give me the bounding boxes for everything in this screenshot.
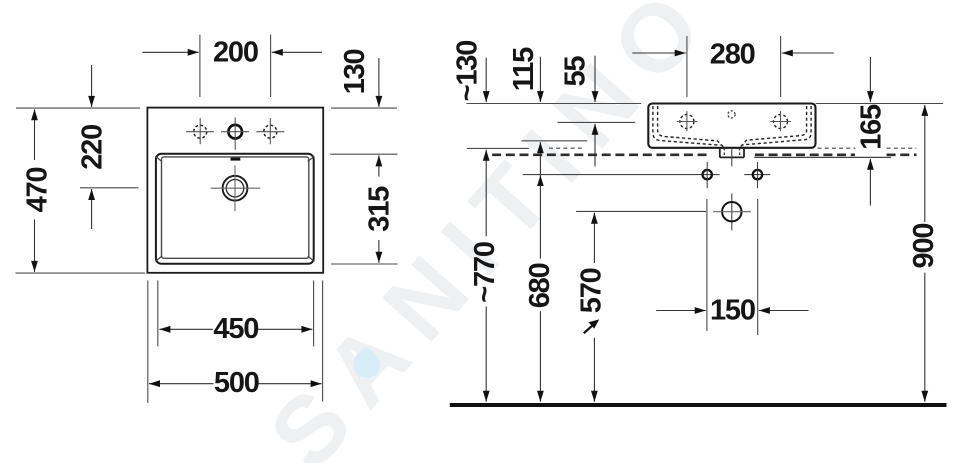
- dim 450: [159, 328, 212, 330]
- dim 115: [539, 57, 541, 102]
- dim 470: [34, 109, 36, 160]
- dim ~130: [485, 58, 487, 102]
- faucet hole middle: [228, 125, 242, 139]
- drain outlet below basin: [719, 148, 721, 158]
- thin dashed hidden line: [549, 147, 584, 149]
- solid line right (counter edge): [754, 156, 891, 158]
- fixing holes level line: [523, 174, 720, 176]
- dim 150: [706, 199, 708, 331]
- svg-text:315: 315: [364, 186, 396, 232]
- svg-text:220: 220: [77, 125, 109, 170]
- thick dashed mounting level line: [492, 154, 709, 157]
- washbasin outer rectangle (top view): [147, 108, 323, 273]
- faucet hole right (dashed): [264, 125, 277, 138]
- fixing hole right: [753, 170, 762, 179]
- fixing hole left: [703, 170, 712, 179]
- watermark blue drop: [353, 347, 380, 378]
- dim 280: [686, 36, 688, 97]
- svg-text:~770: ~770: [469, 242, 501, 303]
- svg-text:115: 115: [508, 47, 540, 91]
- svg-text:~130: ~130: [452, 41, 484, 102]
- slope arrow (570 leader): [584, 325, 593, 333]
- dim 500: [149, 383, 214, 385]
- svg-text:165: 165: [856, 104, 888, 150]
- dim 680: [539, 311, 541, 402]
- overflow slot: [231, 158, 241, 161]
- svg-text:470: 470: [22, 168, 54, 213]
- drain trap level line (570): [576, 210, 706, 212]
- drain (top view): [223, 176, 248, 201]
- ref line 115 level: [521, 140, 587, 142]
- svg-text:900: 900: [908, 224, 940, 269]
- svg-text:280: 280: [710, 38, 755, 70]
- faucet hole left (dashed): [194, 125, 207, 138]
- svg-text:200: 200: [213, 37, 258, 69]
- dim 165: [869, 57, 871, 102]
- faucet hole right (front): [774, 115, 788, 129]
- svg-text:150: 150: [710, 295, 755, 327]
- basin rim outer rounded rect: [156, 154, 314, 264]
- dim ~770 (shares line with ~130 bottom arrow): [485, 150, 487, 237]
- dim 55: [594, 56, 596, 102]
- basin floor inner rounded rect: [162, 157, 309, 258]
- basin corner diagonals: [155, 156, 162, 161]
- svg-text:55: 55: [560, 56, 592, 87]
- ext lines left view: [16, 107, 140, 109]
- overflow hole (front, dashed): [728, 111, 735, 118]
- dim 900: [924, 105, 926, 222]
- svg-text:450: 450: [213, 313, 258, 345]
- drain circle (front): [722, 202, 741, 221]
- ref line 55 level: [558, 121, 636, 123]
- dim 315: [378, 240, 380, 263]
- dim 570: [593, 213, 595, 263]
- svg-text:680: 680: [524, 263, 556, 308]
- dim 200: [142, 51, 198, 53]
- drain axis line: [731, 149, 733, 166]
- ref line ~130 level: [467, 147, 529, 149]
- svg-text:570: 570: [576, 268, 608, 313]
- top reference line (rim level): [467, 103, 642, 105]
- basin hidden interior dashed profile: [653, 106, 811, 148]
- watermark SANITINO: [249, 0, 734, 463]
- basin outline (front view): [648, 104, 815, 148]
- faucet hole left (front): [680, 115, 694, 129]
- dim 220: [91, 65, 93, 107]
- svg-text:500: 500: [214, 367, 259, 399]
- svg-text:130: 130: [339, 50, 371, 95]
- dim 130 (left view): [378, 58, 380, 107]
- floor line: [450, 403, 947, 407]
